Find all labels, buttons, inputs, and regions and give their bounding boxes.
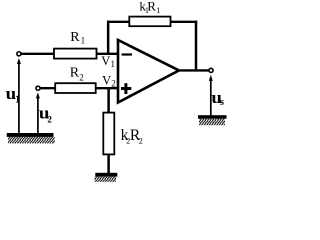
svg-text:R: R — [70, 30, 80, 45]
resistor k1R1 — [129, 17, 170, 27]
label u1 — [6, 84, 21, 105]
op-amp U1 — [118, 40, 179, 103]
svg-text:1: 1 — [156, 6, 160, 15]
input terminal circle u1 — [17, 52, 21, 56]
svg-text:1: 1 — [81, 35, 86, 45]
svg-text:R: R — [70, 65, 80, 80]
output terminal circle — [209, 68, 213, 72]
svg-text:2: 2 — [79, 72, 84, 82]
svg-text:V: V — [102, 74, 111, 88]
wire k2R2 to ground — [107, 154, 110, 174]
u2 source arrow — [36, 92, 40, 133]
wire node V2 drop to k2R2 — [107, 88, 110, 113]
resistor k2R2 — [103, 113, 114, 155]
svg-text:2: 2 — [111, 79, 116, 89]
wire k1R1 to right corner — [170, 21, 197, 23]
label u2 — [39, 104, 53, 125]
label V1 — [101, 54, 115, 69]
label R1 — [70, 30, 85, 45]
svg-text:R: R — [147, 0, 156, 14]
u1 source arrow — [17, 58, 21, 134]
ground left — [7, 133, 55, 144]
label k1R1 — [139, 0, 160, 15]
wire R2 to non-inverting input — [96, 87, 118, 89]
svg-text:1: 1 — [111, 59, 116, 69]
op-amp minus sign — [122, 53, 132, 55]
label R2 — [70, 65, 84, 82]
wire feedback right riser down to output — [195, 21, 198, 71]
op-amp plus sign — [121, 83, 131, 94]
wire feedback top left to k1R1 — [107, 21, 130, 23]
svg-text:s: s — [220, 97, 224, 108]
wire R1 to inverting input — [96, 53, 118, 55]
ground middle — [95, 173, 118, 182]
svg-text:2: 2 — [47, 115, 52, 125]
wire node V1 riser up — [107, 21, 110, 55]
label us — [211, 88, 224, 108]
wire op-amp output to terminal — [178, 69, 209, 71]
svg-text:V: V — [101, 54, 110, 68]
svg-text:2: 2 — [139, 137, 143, 146]
label V2 — [102, 74, 116, 89]
ground right — [198, 115, 227, 125]
label k2R2 — [121, 127, 143, 146]
us output arrow — [209, 75, 213, 116]
svg-text:1: 1 — [15, 94, 20, 105]
wire input2 to R2 — [40, 87, 57, 89]
resistor R2 — [55, 83, 95, 93]
input terminal circle u2 — [36, 86, 40, 90]
wire input1 to R1 — [20, 53, 55, 55]
resistor R1 — [54, 49, 97, 59]
